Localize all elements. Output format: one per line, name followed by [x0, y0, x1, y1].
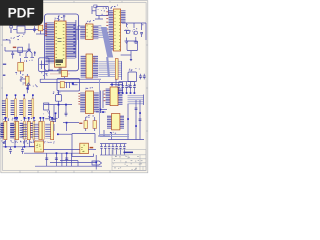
IC U5 pins left [81, 55, 86, 77]
net stub left border [3, 64, 6, 65]
wire [95, 155, 97, 170]
capacitor C3 [48, 70, 67, 78]
IC U6 pins left [80, 92, 85, 112]
resistor network RN1 [115, 59, 118, 80]
IC U3 body [86, 24, 93, 40]
IC U3 pins left [80, 25, 85, 39]
net labels U5 pins [93, 58, 95, 63]
IC U4 body [114, 9, 121, 51]
voltage regulator U9 [30, 140, 44, 152]
junction dots rails [135, 125, 137, 127]
wire [44, 104, 72, 106]
schematic sheet background [0, 0, 148, 173]
oscillator Y1 [11, 26, 45, 37]
sheet border frame [1, 1, 148, 173]
wire [44, 149, 80, 151]
capacitor C2 [11, 51, 14, 59]
connector header array row 2 [0, 117, 7, 144]
IC U6 designator [85, 87, 88, 90]
crystal X1 box [121, 41, 138, 61]
net labels U2 left pins [45, 23, 47, 36]
IC U8 pins left [107, 115, 112, 129]
bus stub lines right of RN1 [118, 61, 122, 80]
PDF badge [0, 0, 43, 26]
net labels U6 left pins [78, 93, 80, 104]
IC U3 pins right [93, 25, 98, 39]
capacitor C6 [84, 117, 88, 131]
driver circuit Q3 [122, 23, 146, 43]
power rail red [50, 73, 70, 75]
inductor L1 [18, 47, 23, 56]
resistor R3 [43, 103, 50, 114]
wire U7 top feeds [111, 82, 113, 86]
net label N3 [79, 123, 82, 124]
capacitor stubs under rail [9, 147, 24, 154]
wire mesh mid-bottom [53, 105, 55, 118]
net label N2 [13, 47, 16, 49]
net labels U2 right pins [73, 25, 75, 53]
capacitor C1 [33, 26, 36, 32]
net flag above connectors [27, 83, 38, 90]
wire U8 bottom [103, 130, 105, 136]
address bus solid slanted band [101, 27, 113, 58]
IC U7 pins left [106, 88, 111, 105]
connector header array row 1 [2, 94, 9, 120]
IC U4 designator [114, 5, 115, 8]
net flag right of row 2 [45, 117, 53, 120]
bus horizontal pair bottom [100, 133, 130, 135]
IC U8 body [112, 114, 120, 130]
decoupling group C4 [127, 68, 145, 87]
title block text [124, 152, 134, 154]
title block table [112, 150, 146, 171]
connector tab J1 [59, 68, 62, 74]
IC U5 body [86, 54, 93, 78]
IC U5 pins right [93, 55, 98, 77]
wire vertical inside box A right [75, 20, 77, 58]
address bus horizontal fan [98, 57, 115, 77]
bypass capacitor row C8 [117, 82, 135, 94]
transistor Q1 [24, 44, 34, 62]
bus pin extension lines U3 [98, 25, 104, 37]
net labels U7 left pins [104, 90, 106, 101]
IC U2 body [55, 21, 67, 67]
connector header array row 2 [1, 117, 7, 143]
IC U4 pins right [121, 10, 126, 23]
IC U3 internal text [86, 26, 92, 38]
IC U4 internal text [114, 11, 120, 50]
resistor R4 [88, 148, 96, 150]
power rail ladder [24, 152, 102, 166]
sub-circuit box B2 [57, 78, 80, 91]
wire [44, 64, 46, 79]
transistor Q4 [53, 90, 62, 118]
capacitor C7 [93, 117, 97, 131]
wire rail under connector row 2 [3, 146, 35, 148]
capacitor row C9 [100, 144, 127, 155]
resistor R2 [20, 74, 29, 93]
power symbol P1 [10, 26, 13, 33]
IC U2 pins left [45, 23, 54, 64]
IC U8 designator [109, 131, 112, 134]
IC U6 body [86, 91, 94, 114]
sub-circuit box U2 boundary [45, 14, 79, 71]
wire bus lower horizontals [40, 78, 101, 80]
IC U7 pins right [118, 88, 123, 105]
resistor R1 [36, 25, 45, 34]
IC U2 designator [58, 15, 59, 18]
IC U4 pins left [109, 10, 114, 50]
wire interconnect U6-U7 [100, 91, 102, 114]
IC U2 pins right [66, 23, 76, 59]
IC U6 pins right [94, 92, 99, 112]
net label N1 [16, 38, 19, 41]
wire [3, 39, 10, 41]
diode D1 [34, 51, 36, 56]
wire rail mid [50, 161, 96, 163]
IC U3 designator [89, 21, 90, 24]
wire loop [72, 133, 95, 135]
IC U7 body [110, 87, 118, 106]
down arrow mid [48, 112, 56, 122]
data bus lines right [128, 95, 144, 106]
wire [5, 50, 31, 52]
IC U2 logo text block [55, 59, 63, 65]
wire vertical rails [135, 100, 137, 140]
IC U2 internal text [55, 23, 64, 59]
capacitor C5 [65, 105, 68, 117]
IC U10 [80, 143, 89, 153]
bus vertical trunk left of U8 [99, 80, 101, 137]
net labels U4 left pins [106, 11, 108, 46]
net flag arrow [92, 161, 102, 165]
reset circuit Q2 [92, 5, 112, 19]
wire [108, 139, 144, 141]
IC U2 top pin stubs [58, 16, 60, 22]
sub-circuit box B1 [39, 58, 49, 76]
svg-text:PDF: PDF [8, 6, 35, 21]
relay K1 [15, 58, 23, 75]
IC U8 pins right [120, 115, 124, 129]
wire U3 left drops [78, 25, 80, 27]
